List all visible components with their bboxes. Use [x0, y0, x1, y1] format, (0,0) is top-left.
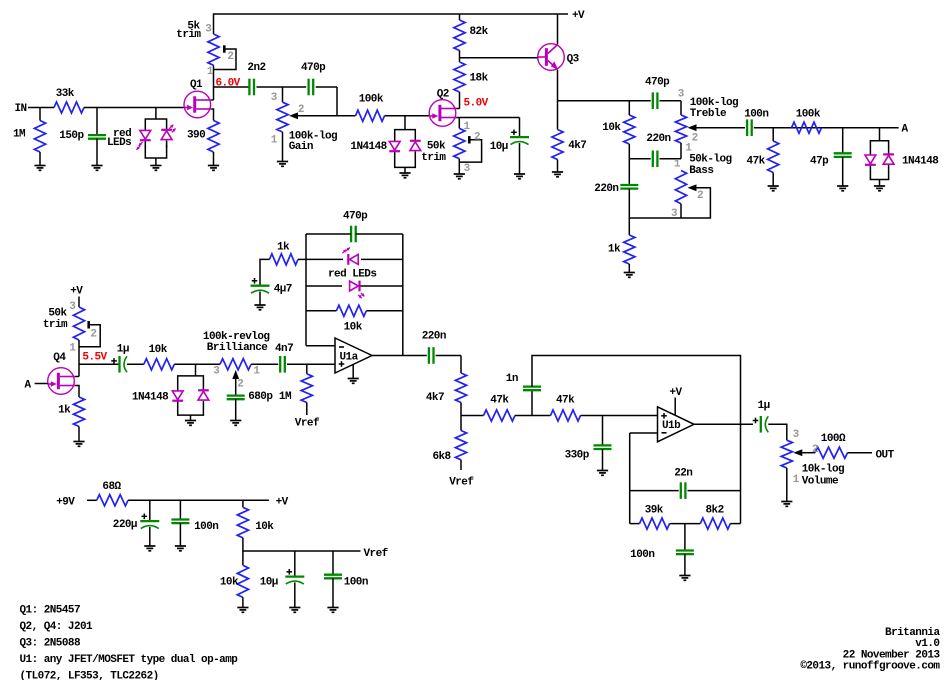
svg-text:Gain: Gain	[289, 141, 313, 153]
svg-text:4k7: 4k7	[568, 140, 586, 152]
svg-text:2: 2	[697, 190, 703, 202]
svg-text:33k: 33k	[56, 88, 75, 100]
svg-text:10k: 10k	[149, 344, 168, 356]
svg-text:2: 2	[298, 104, 304, 116]
svg-text:1M: 1M	[279, 391, 292, 403]
svg-text:22 November 2013: 22 November 2013	[843, 649, 941, 661]
svg-text:2: 2	[692, 133, 698, 145]
svg-text:82k: 82k	[470, 26, 489, 38]
svg-text:+9V: +9V	[56, 497, 75, 509]
svg-text:3: 3	[213, 365, 220, 377]
svg-text:68Ω: 68Ω	[102, 481, 121, 493]
svg-text:150p: 150p	[59, 130, 84, 142]
svg-text:8k2: 8k2	[706, 505, 724, 517]
svg-text:220n: 220n	[594, 183, 618, 195]
svg-text:470p: 470p	[301, 62, 326, 74]
svg-text:U1a: U1a	[340, 351, 359, 363]
svg-text:1: 1	[207, 66, 214, 78]
svg-text:trim: trim	[176, 29, 201, 41]
svg-text:+V: +V	[669, 387, 682, 399]
svg-text:3: 3	[464, 163, 471, 175]
svg-text:47k: 47k	[556, 395, 575, 407]
svg-text:Q4: Q4	[53, 352, 66, 364]
svg-text:1N4148: 1N4148	[350, 141, 387, 153]
svg-text:2: 2	[474, 131, 480, 143]
svg-text:(TL072, LF353, TLC2262): (TL072, LF353, TLC2262)	[20, 670, 159, 680]
svg-text:470p: 470p	[645, 77, 670, 89]
svg-text:1: 1	[69, 343, 76, 355]
svg-text:100Ω: 100Ω	[821, 433, 846, 445]
svg-text:22n: 22n	[674, 468, 692, 480]
svg-text:LEDs: LEDs	[107, 137, 131, 149]
svg-text:100k: 100k	[359, 94, 384, 106]
svg-text:Q2: Q2	[437, 89, 449, 101]
svg-text:390: 390	[187, 130, 205, 142]
svg-text:10µ: 10µ	[490, 141, 508, 153]
svg-text:Q1: Q1	[190, 79, 203, 91]
svg-text:Treble: Treble	[690, 108, 727, 120]
svg-text:1n: 1n	[506, 373, 518, 385]
svg-text:50k: 50k	[48, 308, 67, 320]
svg-text:1N4148: 1N4148	[902, 155, 939, 167]
svg-text:4µ7: 4µ7	[274, 284, 292, 296]
svg-text:47k: 47k	[747, 155, 766, 167]
svg-text:1N4148: 1N4148	[132, 392, 169, 404]
svg-text:Q3: Q3	[567, 54, 580, 66]
svg-text:6k8: 6k8	[432, 451, 451, 463]
svg-text:Vref: Vref	[364, 548, 389, 560]
svg-text:Britannia: Britannia	[885, 627, 940, 639]
svg-text:red LEDs: red LEDs	[328, 269, 376, 281]
svg-text:trim: trim	[43, 319, 68, 331]
svg-text:100n: 100n	[344, 577, 368, 589]
svg-text:U1b: U1b	[662, 420, 681, 432]
svg-text:1: 1	[253, 365, 260, 377]
svg-text:Q2, Q4: J201: Q2, Q4: J201	[20, 621, 94, 633]
svg-text:4k7: 4k7	[426, 392, 444, 404]
svg-text:Bass: Bass	[689, 165, 713, 177]
svg-text:10k: 10k	[220, 577, 239, 589]
svg-text:2n2: 2n2	[247, 62, 265, 74]
svg-text:A: A	[902, 124, 909, 136]
svg-text:trim: trim	[421, 152, 446, 164]
svg-text:10k: 10k	[255, 521, 274, 533]
svg-text:1M: 1M	[13, 129, 26, 141]
svg-text:10k: 10k	[602, 122, 621, 134]
svg-text:5.5V: 5.5V	[82, 352, 107, 364]
svg-text:1: 1	[793, 474, 800, 486]
svg-text:Volume: Volume	[802, 476, 839, 488]
svg-text:+V: +V	[276, 497, 289, 509]
svg-text:220n: 220n	[646, 133, 670, 145]
svg-text:100k: 100k	[796, 108, 821, 120]
svg-text:2: 2	[237, 379, 243, 391]
svg-text:47p: 47p	[810, 155, 829, 167]
svg-text:680p: 680p	[248, 391, 273, 403]
svg-text:1: 1	[271, 134, 278, 146]
svg-text:2: 2	[90, 329, 96, 341]
svg-text:1k: 1k	[58, 405, 71, 417]
svg-text:10k: 10k	[344, 322, 363, 334]
svg-text:50k-log: 50k-log	[689, 154, 731, 166]
svg-text:U1: any JFET/MOSFET type dual: U1: any JFET/MOSFET type dual op-amp	[20, 654, 239, 666]
svg-text:3: 3	[271, 92, 278, 104]
svg-text:5.0V: 5.0V	[464, 97, 489, 109]
svg-text:Q1: 2N5457: Q1: 2N5457	[20, 604, 81, 616]
svg-text:10k-log: 10k-log	[802, 464, 844, 476]
svg-text:100n: 100n	[194, 521, 218, 533]
svg-text:3: 3	[671, 208, 678, 220]
svg-text:3: 3	[205, 24, 212, 36]
svg-text:1µ: 1µ	[117, 344, 129, 356]
svg-text:100n: 100n	[630, 549, 654, 561]
svg-text:A: A	[25, 380, 32, 392]
svg-text:220µ: 220µ	[113, 519, 137, 531]
svg-text:1k: 1k	[277, 242, 290, 254]
svg-text:2: 2	[812, 444, 818, 456]
svg-text:470p: 470p	[343, 211, 368, 223]
svg-text:IN: IN	[15, 103, 27, 115]
svg-text:100n: 100n	[744, 108, 768, 120]
svg-text:+V: +V	[70, 286, 83, 298]
svg-text:330p: 330p	[565, 450, 590, 462]
svg-text:Brilliance: Brilliance	[207, 342, 268, 354]
svg-text:Q3: 2N5088: Q3: 2N5088	[20, 638, 81, 650]
svg-text:1: 1	[674, 159, 681, 171]
svg-text:3: 3	[69, 301, 76, 313]
svg-text:220n: 220n	[422, 331, 446, 343]
svg-text:+V: +V	[572, 10, 585, 22]
svg-text:50k: 50k	[427, 141, 446, 153]
svg-text:Vref: Vref	[295, 418, 320, 430]
svg-text:39k: 39k	[645, 505, 664, 517]
svg-text:OUT: OUT	[876, 450, 895, 462]
svg-text:1k: 1k	[608, 244, 621, 256]
svg-text:©2013, runoffgroove.com: ©2013, runoffgroove.com	[800, 661, 940, 673]
svg-text:10µ: 10µ	[260, 577, 278, 589]
svg-text:4n7: 4n7	[275, 343, 293, 355]
svg-text:3: 3	[678, 89, 685, 101]
svg-text:2: 2	[227, 51, 233, 63]
svg-text:v1.0: v1.0	[915, 638, 939, 650]
svg-text:3: 3	[793, 429, 800, 441]
svg-text:Vref: Vref	[449, 477, 474, 489]
svg-text:18k: 18k	[470, 73, 489, 85]
svg-text:47k: 47k	[490, 395, 509, 407]
svg-text:1µ: 1µ	[758, 400, 770, 412]
